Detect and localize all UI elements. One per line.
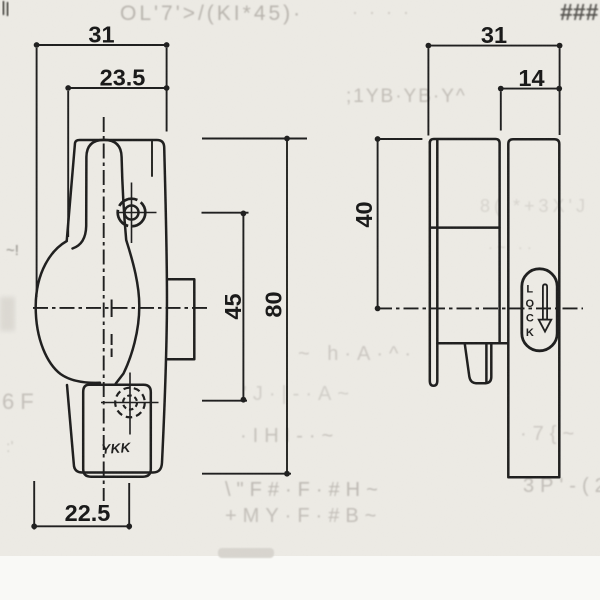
base plate side [430,140,438,386]
bleed marks left edge [0,242,40,456]
dimension 45 (left view) [202,213,249,401]
knob bulge arc [36,241,100,383]
bleed marks right column [480,196,589,256]
hook keeper below case [465,344,492,383]
dimension 23.5 (left view) [68,88,166,237]
handle lever outline [73,140,140,384]
body outline (top, right, bottom edges) [67,140,167,473]
handle strip [508,139,559,477]
horizontal centerline [33,307,210,309]
case divider line [430,226,499,229]
case outline [430,139,500,343]
dimension 40 (right view) [378,139,423,308]
dimension 31 (left view) [37,45,167,297]
partial line near center [111,300,113,358]
bottom white strip [0,556,600,600]
lock arrow (outlined, pointing down) [539,284,552,331]
inner edge line top-right [151,141,153,176]
bleed text bottom block [225,343,600,527]
LOCK capsule [522,269,557,351]
lower tongue (YKK plate) [83,385,151,477]
dimension 22.5 (left view) [34,481,129,530]
horizontal centerline (right view) [377,307,583,309]
bleed-through text top row [120,2,412,25]
bleed gray bar bottom-left [218,548,274,558]
hook inner line [485,344,488,383]
screw hole upper [118,183,157,244]
dimension 31 (right view) [428,46,559,136]
LOCK letters [526,283,535,339]
keeper rectangle right side [167,279,194,359]
vertical centerline [103,117,105,501]
case bottom edge [437,342,507,345]
screw hole lower (hidden) [101,373,159,435]
dimension 80 (left view) [202,139,307,474]
bleed dark mark top-left corner [3,1,8,16]
dimension 14 (right view) [501,89,559,131]
